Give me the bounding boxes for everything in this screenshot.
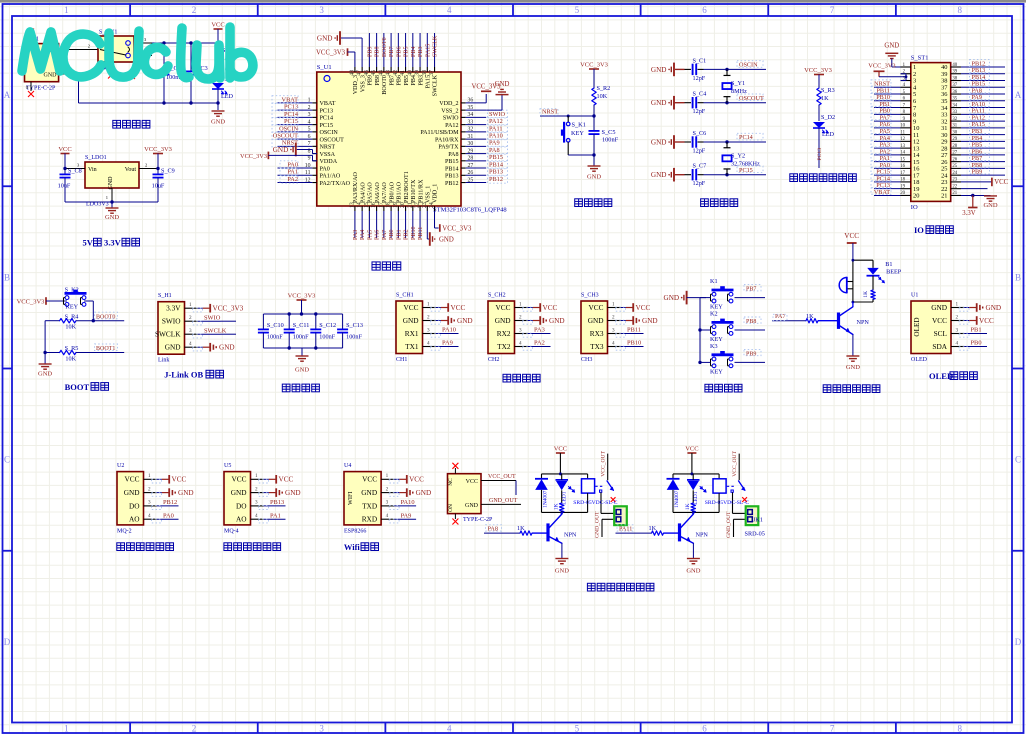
svg-text:PA7/AO: PA7/AO [382,182,388,203]
svg-text:C: C [1015,455,1021,465]
svg-text:GND: GND [587,174,601,181]
svg-text:VCC: VCC [231,475,246,484]
svg-text:VCC_OUT: VCC_OUT [488,474,516,480]
svg-text:OSCIN: OSCIN [279,125,298,132]
svg-text:VCC: VCC [495,303,510,312]
svg-text:19: 19 [900,184,905,189]
svg-text:3: 3 [612,327,615,333]
svg-text:1: 1 [519,301,522,307]
svg-text:GND: GND [285,489,301,497]
svg-text:GND: GND [457,317,473,325]
svg-text:Wifi: Wifi [344,542,361,552]
svg-text:PA5/AO: PA5/AO [368,182,374,203]
svg-text:1: 1 [612,301,615,307]
svg-text:GND: GND [846,364,860,371]
svg-text:PA4: PA4 [360,230,366,240]
svg-text:VCC: VCC [403,303,418,312]
svg-text:GND: GND [986,304,1002,312]
svg-text:PB12: PB12 [163,499,177,506]
svg-text:VCC: VCC [466,479,478,485]
svg-text:BOOT0: BOOT0 [96,314,115,320]
svg-text:NRST: NRST [320,145,336,151]
svg-text:18: 18 [900,178,905,183]
svg-text:K1: K1 [710,278,718,285]
svg-text:ESP8266: ESP8266 [344,528,366,534]
svg-text:12pF: 12pF [693,148,706,155]
svg-text:5: 5 [575,5,580,15]
svg-text:PA10: PA10 [401,499,415,506]
svg-text:4: 4 [612,340,615,346]
svg-text:PA6: PA6 [375,230,381,240]
svg-text:S_R4: S_R4 [65,313,79,320]
svg-text:PC13: PC13 [817,148,823,161]
svg-text:TX1: TX1 [405,342,419,351]
svg-text:VCC_3V3: VCC_3V3 [868,63,895,70]
svg-text:VBAT: VBAT [320,101,336,107]
svg-text:VCC: VCC [279,476,294,484]
svg-text:S_R5: S_R5 [65,345,79,352]
svg-text:PA10/RX: PA10/RX [435,137,459,143]
svg-text:3.3V: 3.3V [104,238,122,248]
svg-text:SRD-05VDC-SL-C: SRD-05VDC-SL-C [573,500,617,506]
svg-text:DO: DO [129,501,140,510]
svg-text:S_CH1: S_CH1 [396,293,414,299]
svg-text:CH1: CH1 [396,357,407,363]
svg-text:10uF: 10uF [152,183,165,190]
svg-text:C: C [4,455,10,465]
svg-text:PB1: PB1 [396,229,402,240]
svg-text:GND: GND [416,489,432,497]
svg-text:B: B [4,272,10,282]
svg-text:U4: U4 [344,463,351,469]
svg-text:Vin: Vin [88,167,97,173]
svg-text:PB0: PB0 [389,229,395,240]
svg-text:TX2: TX2 [497,342,511,351]
svg-text:GND_OUT: GND_OUT [595,511,601,538]
svg-text:GND: GND [124,488,140,497]
svg-text:PB0: PB0 [971,340,982,347]
svg-text:GND: GND [651,138,667,146]
svg-text:1K: 1K [685,503,691,510]
svg-text:VDD_3: VDD_3 [353,75,359,94]
svg-text:IO: IO [914,225,924,235]
svg-text:4: 4 [386,513,389,519]
svg-text:PB7: PB7 [389,46,395,57]
svg-text:A: A [1015,90,1022,100]
svg-text:GND: GND [403,316,419,325]
svg-text:GND: GND [178,489,194,497]
svg-text:OLED: OLED [913,317,921,336]
svg-text:PA0: PA0 [287,161,298,168]
svg-text:B1: B1 [885,261,892,268]
svg-text:GND: GND [664,294,680,302]
svg-text:SRD-05: SRD-05 [745,531,765,538]
svg-text:PB9: PB9 [746,351,756,357]
svg-text:32.768KHz: 32.768KHz [731,160,760,167]
svg-text:VCC: VCC [685,446,698,453]
svg-text:PA0: PA0 [163,512,174,519]
svg-text:3: 3 [255,500,258,506]
svg-text:PA9/TX: PA9/TX [438,145,459,151]
svg-text:BOOT: BOOT [65,382,90,392]
svg-text:PA9: PA9 [489,140,500,147]
svg-text:VCC_3V3: VCC_3V3 [213,305,244,313]
svg-text:PA8: PA8 [448,152,458,158]
svg-text:PB9: PB9 [367,46,373,57]
svg-text:S_Y1: S_Y1 [731,80,745,87]
svg-text:S_C6: S_C6 [693,130,707,137]
svg-text:10K: 10K [65,324,76,331]
svg-text:17: 17 [900,171,905,176]
svg-text:3: 3 [319,724,324,734]
svg-text:VCC: VCC [211,22,224,29]
svg-text:10K: 10K [65,355,76,362]
svg-text:37: 37 [952,83,957,88]
svg-text:8: 8 [957,5,962,15]
svg-text:3: 3 [148,500,151,506]
svg-text:SWIO: SWIO [162,317,181,326]
svg-text:GND_OUT: GND_OUT [489,498,518,504]
svg-text:PB2: PB2 [404,229,410,240]
svg-text:SWIO: SWIO [204,314,221,321]
svg-text:32: 32 [952,117,957,122]
svg-text:PC13: PC13 [284,104,298,111]
svg-text:GND: GND [555,568,569,575]
svg-text:Vout: Vout [125,167,137,173]
svg-text:PC15: PC15 [284,118,298,125]
svg-text:PA5: PA5 [367,230,373,240]
svg-text:SCL: SCL [934,329,948,338]
svg-text:PB10: PB10 [627,340,641,347]
svg-text:30: 30 [952,130,957,135]
svg-text:PA7: PA7 [382,230,388,240]
svg-text:MQ-2: MQ-2 [117,528,132,534]
svg-text:PB15: PB15 [445,159,459,165]
svg-text:NC: NC [448,478,454,486]
svg-text:PA15: PA15 [425,44,431,57]
svg-text:38: 38 [952,76,957,81]
svg-text:GND: GND [983,202,997,209]
svg-text:2: 2 [255,486,258,492]
svg-text:25: 25 [952,164,957,169]
svg-text:OSCIN: OSCIN [739,62,758,69]
svg-text:PB8: PB8 [375,46,381,57]
svg-text:PA3: PA3 [534,327,545,334]
svg-text:20: 20 [913,193,919,200]
svg-text:VDDA: VDDA [320,159,338,165]
svg-text:4: 4 [519,340,522,346]
svg-text:12: 12 [900,137,905,142]
svg-text:4: 4 [447,5,452,15]
svg-text:24: 24 [952,171,957,176]
svg-text:GND: GND [931,303,947,312]
svg-text:RX3: RX3 [590,329,604,338]
svg-text:2: 2 [145,162,147,167]
svg-text:4: 4 [427,340,430,346]
svg-text:3: 3 [319,5,324,15]
svg-text:PA9: PA9 [401,512,412,519]
svg-text:PA3: PA3 [353,230,359,240]
svg-text:21: 21 [941,193,947,200]
svg-text:TXD: TXD [362,501,377,510]
svg-text:U5: U5 [224,463,231,469]
svg-text:S_C1: S_C1 [693,57,707,64]
svg-text:100nF: 100nF [267,334,283,341]
svg-text:2: 2 [88,43,90,48]
svg-text:PB4: PB4 [411,46,417,57]
svg-text:PB1/AO: PB1/AO [397,181,403,203]
svg-text:VDD_1: VDD_1 [433,184,439,203]
svg-text:S_C11: S_C11 [293,322,310,329]
svg-text:4: 4 [255,513,258,519]
svg-text:K2: K2 [710,311,718,318]
svg-text:GND: GND [317,34,333,42]
svg-text:PA10: PA10 [489,133,503,140]
svg-text:S_C13: S_C13 [346,322,363,329]
svg-text:VCC: VCC [636,304,651,312]
svg-text:PB9: PB9 [972,169,983,176]
svg-text:VCC: VCC [543,304,558,312]
svg-text:PB3: PB3 [418,46,424,57]
svg-text:4: 4 [447,724,452,734]
svg-text:1: 1 [427,301,430,307]
svg-text:GND_OUT: GND_OUT [726,511,732,538]
svg-text:SWCLK: SWCLK [155,330,181,339]
svg-text:VCC: VCC [554,446,567,453]
svg-text:SWIO: SWIO [489,111,506,118]
svg-text:PA0: PA0 [320,166,330,172]
svg-text:J-Link OB: J-Link OB [164,370,203,380]
svg-text:S_ST1: S_ST1 [911,55,929,62]
svg-text:20: 20 [900,191,905,196]
svg-text:JK1: JK1 [753,517,763,524]
svg-text:S_CH2: S_CH2 [488,293,506,299]
svg-text:GND: GND [295,367,309,374]
svg-text:GND: GND [361,488,377,497]
svg-text:PB13: PB13 [489,169,503,176]
svg-text:2: 2 [612,314,615,320]
svg-text:GND: GND [211,119,225,126]
svg-text:S_H1: S_H1 [158,293,172,299]
svg-text:12pF: 12pF [693,75,706,82]
svg-text:1N4007: 1N4007 [674,490,680,508]
svg-text:VCC: VCC [994,179,1008,186]
svg-text:PB14: PB14 [445,166,459,172]
svg-text:WIFI: WIFI [347,492,354,505]
svg-text:1: 1 [956,301,959,307]
svg-text:VSS_3: VSS_3 [360,75,366,92]
svg-text:PA2/TX/AO: PA2/TX/AO [320,181,351,187]
svg-text:NPN: NPN [564,532,577,539]
svg-text:GND: GND [38,371,52,378]
svg-text:13: 13 [900,144,905,149]
svg-text:2: 2 [192,5,197,15]
svg-text:CH2: CH2 [488,357,499,363]
svg-text:VCC: VCC [58,146,71,153]
svg-text:PB2/BOOT1: PB2/BOOT1 [404,171,410,203]
svg-text:PB13: PB13 [445,174,459,180]
svg-text:PB10: PB10 [411,226,417,240]
svg-text:B: B [1015,272,1021,282]
svg-text:100nF: 100nF [346,334,362,341]
svg-text:GND: GND [686,568,700,575]
svg-text:SRD-05VDC-SL-C: SRD-05VDC-SL-C [705,500,749,506]
svg-text:PA11: PA11 [489,125,503,132]
svg-text:S_R3: S_R3 [821,87,835,94]
svg-text:4: 4 [148,513,151,519]
svg-text:GND: GND [651,171,667,179]
svg-text:PB14: PB14 [489,161,504,168]
svg-text:3: 3 [386,500,389,506]
svg-text:VCC_3V3: VCC_3V3 [17,298,45,305]
svg-text:U1: U1 [911,293,918,299]
svg-text:VCC_3V3: VCC_3V3 [288,293,316,300]
svg-text:S_U1: S_U1 [317,64,332,71]
svg-text:PA7: PA7 [775,313,785,320]
svg-text:1N4007: 1N4007 [543,490,549,508]
svg-text:PB6: PB6 [396,46,402,57]
svg-text:U2: U2 [117,463,124,469]
svg-text:21: 21 [952,191,957,196]
svg-text:14: 14 [900,151,905,156]
svg-text:GND: GND [219,344,235,352]
svg-text:PA2: PA2 [287,176,298,183]
svg-text:5: 5 [575,724,580,734]
svg-text:VCC_3V3: VCC_3V3 [316,50,346,57]
svg-text:PB1: PB1 [971,327,982,334]
svg-text:2: 2 [148,486,151,492]
svg-text:DO: DO [236,501,247,510]
svg-text:LED: LED [221,93,234,100]
svg-text:VSSA: VSSA [320,152,336,158]
svg-text:PA1/AO: PA1/AO [320,174,341,180]
svg-text:GND: GND [105,214,119,221]
svg-text:PA12: PA12 [445,123,458,129]
svg-text:1: 1 [189,302,192,308]
svg-text:GND: GND [465,503,479,509]
svg-text:S_D2: S_D2 [821,114,835,121]
svg-text:BOOT0: BOOT0 [382,37,388,57]
svg-text:PB7: PB7 [746,287,756,293]
svg-text:GND: GND [884,43,899,50]
svg-text:S_R2: S_R2 [597,85,611,92]
svg-text:PB13: PB13 [270,499,284,506]
svg-text:OSCIN: OSCIN [320,130,339,136]
svg-text:2: 2 [519,314,522,320]
svg-text:7: 7 [830,724,835,734]
svg-text:VBAT: VBAT [282,96,299,103]
svg-text:1K: 1K [863,291,869,298]
svg-text:OLED: OLED [911,357,928,363]
svg-text:VCC_3V3: VCC_3V3 [580,62,608,69]
svg-text:S_C10: S_C10 [267,322,284,329]
svg-text:RXD: RXD [362,515,377,524]
svg-text:VBAT: VBAT [874,189,890,196]
svg-text:NPN: NPN [857,319,870,326]
svg-text:D: D [1015,637,1022,647]
svg-text:GND: GND [44,72,58,78]
svg-text:S_CH3: S_CH3 [581,293,599,299]
svg-text:NPN: NPN [696,532,709,539]
svg-text:6: 6 [702,5,707,15]
svg-text:AO: AO [129,515,140,524]
svg-text:15: 15 [900,157,905,162]
svg-text:IO: IO [911,204,918,211]
svg-text:A: A [4,90,11,100]
svg-text:S_C9: S_C9 [161,168,175,175]
svg-text:9: 9 [308,156,311,162]
svg-text:S_C8: S_C8 [68,168,82,175]
svg-text:2: 2 [192,724,197,734]
svg-text:10uF: 10uF [58,183,71,190]
svg-text:S_Y2: S_Y2 [731,152,745,159]
svg-text:SWCLK: SWCLK [433,74,439,96]
svg-text:LED: LED [822,131,835,138]
svg-text:3: 3 [189,328,192,334]
svg-text:GND: GND [651,99,667,107]
svg-text:SDA: SDA [932,342,947,351]
svg-text:PA8: PA8 [489,147,500,154]
svg-text:VCC: VCC [979,317,994,325]
svg-text:VSS_2: VSS_2 [441,108,458,114]
svg-text:6: 6 [702,724,707,734]
svg-text:1: 1 [64,5,69,15]
svg-text:PB12: PB12 [489,176,503,183]
svg-text:12pF: 12pF [693,108,706,115]
svg-text:RX1: RX1 [405,329,419,338]
svg-text:GND: GND [588,316,604,325]
svg-text:23: 23 [952,178,957,183]
svg-text:29: 29 [952,137,957,142]
svg-text:1: 1 [106,195,108,200]
svg-text:1K: 1K [821,95,829,102]
svg-text:VCC: VCC [409,476,424,484]
svg-text:RX2: RX2 [497,329,511,338]
svg-text:PB8: PB8 [746,319,756,325]
svg-text:100nF: 100nF [602,136,619,143]
svg-text:2: 2 [956,314,959,320]
svg-text:VCC_3V3: VCC_3V3 [442,225,472,232]
svg-text:39: 39 [952,70,957,75]
svg-text:GND: GND [495,81,510,88]
svg-text:PB12: PB12 [445,181,459,187]
svg-text:SWCLK: SWCLK [204,327,227,334]
svg-text:LED1: LED1 [562,491,568,504]
svg-text:2: 2 [189,315,192,321]
svg-text:TYPE-C-2P: TYPE-C-2P [463,517,493,523]
svg-text:1: 1 [255,473,258,479]
svg-text:PB11/RX: PB11/RX [418,179,424,203]
svg-text:GND: GND [495,316,511,325]
svg-text:8MHz: 8MHz [731,88,747,95]
svg-text:VCC: VCC [844,232,859,240]
svg-text:7: 7 [830,5,835,15]
svg-text:VCC_3V3: VCC_3V3 [144,146,172,153]
svg-text:GND: GND [231,488,247,497]
svg-text:PB11: PB11 [627,327,641,334]
svg-text:D: D [4,637,11,647]
svg-text:PC14: PC14 [320,116,334,122]
svg-text:27: 27 [952,151,957,156]
svg-text:VCC: VCC [172,476,187,484]
svg-text:4: 4 [956,340,959,346]
svg-text:MQ-4: MQ-4 [224,528,239,534]
svg-text:PA15: PA15 [426,75,432,88]
svg-text:1: 1 [64,724,69,734]
svg-text:PA4/AO: PA4/AO [360,182,366,203]
svg-text:PA12: PA12 [489,118,503,125]
svg-text:BEEP: BEEP [886,269,902,276]
